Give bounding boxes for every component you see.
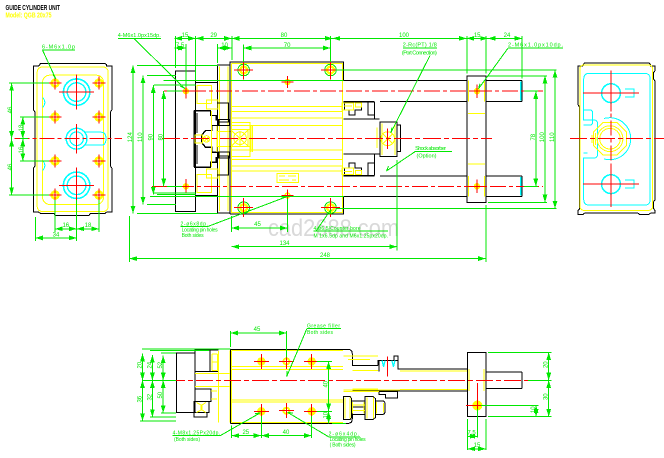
top guide rod <box>344 81 523 102</box>
svg-text:34: 34 <box>53 232 60 238</box>
nameplate <box>277 174 299 183</box>
svg-text:80: 80 <box>159 133 165 140</box>
dim row 1 <box>174 37 195 39</box>
body interior yellow lines <box>232 107 343 172</box>
right end view <box>570 63 664 215</box>
green: bottom dims 7.5/15 <box>468 409 486 450</box>
lower nut assembly right of body <box>343 397 351 420</box>
yellow rounded rect <box>580 65 653 211</box>
svg-text:100: 100 <box>540 132 546 143</box>
main top view <box>152 61 543 218</box>
green: 40/10 vertical dim <box>317 361 346 423</box>
center yellow circles <box>597 126 623 152</box>
bottom guide rod hole (cyan) <box>63 172 89 198</box>
piston rod between clevis and body <box>217 132 231 147</box>
dimension extension lines top <box>174 36 522 87</box>
svg-text:18: 18 <box>85 223 92 229</box>
flange yellow <box>219 351 231 423</box>
svg-text:20: 20 <box>544 361 550 368</box>
bearing block <box>231 123 250 157</box>
svg-text:78: 78 <box>531 133 537 140</box>
svg-text:80: 80 <box>281 33 288 39</box>
head cap right <box>343 349 378 423</box>
svg-text:100: 100 <box>399 33 410 39</box>
center boss cyan arc <box>604 118 631 160</box>
svg-text:Both sides: Both sides <box>182 233 205 239</box>
svg-text:70: 70 <box>284 43 291 49</box>
top guide rod hole (cyan) <box>63 79 89 105</box>
callout 4-M8x1.25 <box>173 431 221 443</box>
left extension lines <box>133 65 344 213</box>
tool plate (bottom view) <box>177 353 196 412</box>
svg-text:( Both sides): ( Both sides) <box>330 442 356 448</box>
rod stub beyond plate <box>486 372 522 389</box>
cyan top rod circle <box>602 84 621 103</box>
svg-text:30: 30 <box>544 393 550 400</box>
svg-text:25: 25 <box>242 430 249 436</box>
callout locating pin holes <box>181 221 219 239</box>
bottom row holes <box>257 407 265 415</box>
svg-text:Both sides: Both sides <box>307 330 334 336</box>
svg-text:36: 36 <box>138 395 144 402</box>
svg-text:24: 24 <box>504 33 511 39</box>
green: 45 dim + grease callout <box>231 331 287 358</box>
body yellow inner <box>232 63 343 212</box>
rod with stopper bracket <box>378 356 468 371</box>
red horizontal centerline <box>15 138 123 140</box>
svg-text:46: 46 <box>8 106 14 113</box>
svg-text:10: 10 <box>221 43 228 49</box>
svg-text:32: 32 <box>147 393 153 400</box>
svg-text:15: 15 <box>474 33 481 39</box>
plate bottom hole <box>472 401 482 411</box>
svg-text:110: 110 <box>138 132 144 142</box>
left end view outline <box>34 63 112 215</box>
tool plate (left, top view) <box>175 71 195 212</box>
head face <box>344 102 380 175</box>
rod-end bracket bottom <box>197 175 212 193</box>
yellow octagon <box>594 123 627 155</box>
svg-text:124: 124 <box>128 132 134 143</box>
8 mounting holes (yellow w/ red cross) <box>52 80 103 199</box>
svg-text:110: 110 <box>550 132 556 142</box>
svg-text:7.5: 7.5 <box>467 431 476 437</box>
svg-text:90: 90 <box>148 133 154 140</box>
svg-text:M 1x6.5dp and M6x1.25px20dp.: M 1x6.5dp and M6x1.25px20dp. <box>314 234 389 240</box>
front plate (bottom view) <box>468 352 486 416</box>
plate holes <box>474 88 480 94</box>
svg-text:50: 50 <box>158 391 164 398</box>
svg-text:16: 16 <box>62 223 69 229</box>
red centerlines <box>570 138 664 140</box>
body (bottom view) <box>231 349 344 423</box>
green dimensions bottom <box>35 200 99 241</box>
yellow outer rounded rect <box>37 67 108 212</box>
main body outline <box>230 62 344 214</box>
svg-text:(Both sides): (Both sides) <box>174 437 200 443</box>
callout counter bore <box>314 226 389 240</box>
locating pin holes <box>285 80 290 85</box>
svg-text:20: 20 <box>138 361 144 368</box>
sensor slot top <box>345 102 375 115</box>
red centerlines <box>164 90 543 92</box>
bottom side view <box>138 323 552 450</box>
red centerline <box>168 379 528 381</box>
rod lines left <box>195 373 231 386</box>
svg-text:248: 248 <box>320 253 331 259</box>
svg-text:40: 40 <box>324 380 330 387</box>
clevis lower block / nut <box>195 389 211 401</box>
green: bottom dims 25/40 <box>232 416 312 438</box>
front plate <box>467 76 486 203</box>
svg-text:10: 10 <box>531 406 537 413</box>
svg-text:GUIDE CYLINDER UNIT: GUIDE CYLINDER UNIT <box>6 5 61 12</box>
svg-text:10: 10 <box>324 411 330 418</box>
svg-text:52: 52 <box>158 361 164 368</box>
left end view <box>8 45 122 242</box>
svg-text:40: 40 <box>283 430 290 436</box>
svg-text:(Option): (Option) <box>417 153 437 159</box>
bottom dims <box>130 160 486 262</box>
callout 2-o6x4dp <box>329 432 367 449</box>
clevis top block <box>195 350 218 371</box>
right end view outline <box>578 63 655 215</box>
rod-end bracket top <box>197 86 212 104</box>
svg-text:134: 134 <box>279 241 290 247</box>
svg-text:Model: QGB 20x75: Model: QGB 20x75 <box>6 13 52 20</box>
cyan edge arcs <box>43 98 45 171</box>
rod yellow lines <box>343 356 467 389</box>
svg-text:46: 46 <box>8 163 14 170</box>
svg-text:24: 24 <box>147 361 153 368</box>
svg-text:29: 29 <box>210 33 217 39</box>
svg-text:18: 18 <box>19 124 25 131</box>
shock absorber <box>380 122 397 156</box>
flange block <box>217 65 230 213</box>
yellow inner rounded rect <box>43 75 104 204</box>
sensor slot bottom <box>345 163 375 176</box>
svg-text:45: 45 <box>254 222 261 228</box>
clevis zone edges <box>196 83 218 196</box>
svg-text:(Port Connection): (Port Connection) <box>402 51 437 57</box>
top row holes <box>257 357 265 365</box>
green dimensions left <box>9 83 49 195</box>
green: left dims <box>140 349 231 421</box>
floating joint <box>194 111 219 168</box>
svg-text:45: 45 <box>254 327 261 333</box>
center piston rod hole <box>66 128 87 149</box>
cyan bottom rod circle <box>602 175 621 194</box>
right extension lines <box>336 70 557 209</box>
cyan body shape <box>584 73 651 205</box>
svg-text:7.5: 7.5 <box>176 43 185 49</box>
body yellow lines <box>232 350 343 422</box>
svg-text:16: 16 <box>19 146 25 153</box>
dim row 2 <box>174 47 185 49</box>
green: right dims <box>481 352 552 416</box>
tool plate mount holes <box>183 88 189 94</box>
svg-text:15: 15 <box>474 443 481 449</box>
svg-text:15: 15 <box>182 33 189 39</box>
bottom guide rod <box>344 176 523 197</box>
bolt holes 4x counterbore <box>238 64 336 213</box>
